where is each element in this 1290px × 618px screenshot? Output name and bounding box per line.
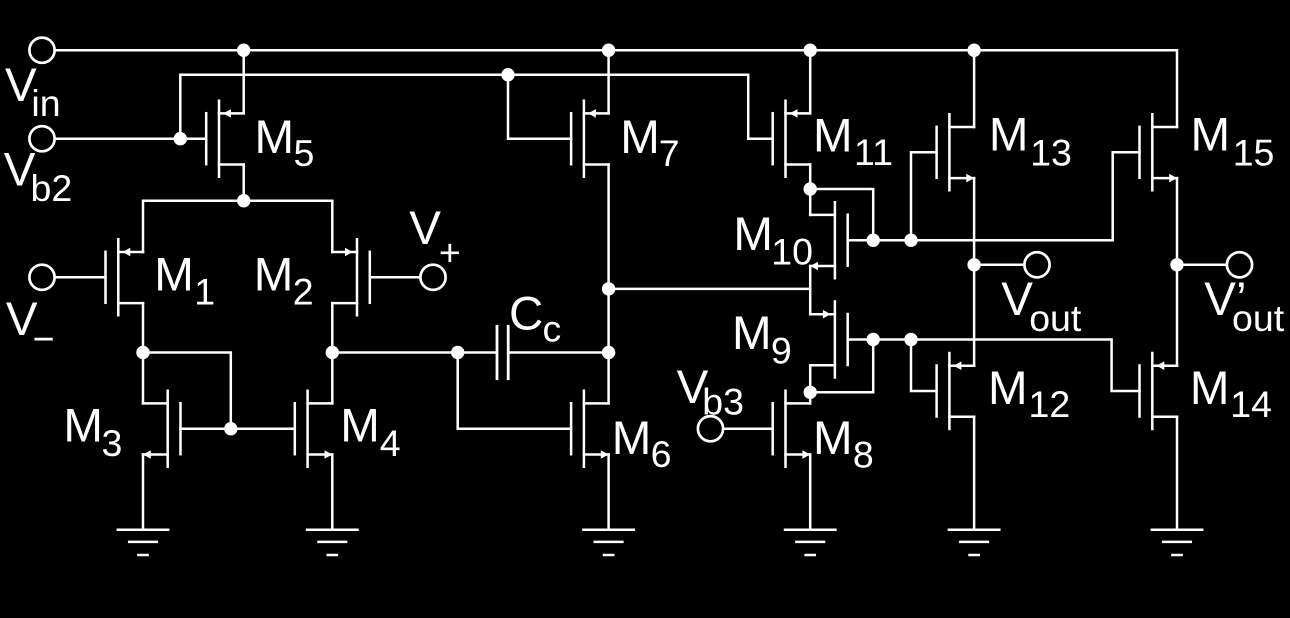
svg-text:M: M: [813, 110, 853, 163]
svg-text:M: M: [813, 412, 853, 465]
svg-text:M: M: [63, 400, 103, 453]
svg-text:out: out: [1232, 297, 1285, 339]
svg-text:M: M: [1190, 362, 1230, 415]
svg-text:in: in: [31, 82, 60, 124]
svg-text:M: M: [154, 249, 194, 302]
svg-text:b2: b2: [31, 167, 73, 209]
svg-text:M: M: [254, 249, 294, 302]
svg-text:11: 11: [854, 131, 893, 173]
svg-text:8: 8: [853, 433, 874, 475]
svg-text:5: 5: [294, 132, 315, 174]
svg-text:M: M: [620, 111, 660, 164]
svg-text:12: 12: [1029, 383, 1071, 425]
svg-text:out: out: [1029, 297, 1082, 339]
svg-text:6: 6: [651, 433, 672, 475]
svg-text:M: M: [340, 400, 380, 453]
svg-text:15: 15: [1233, 132, 1275, 174]
svg-text:c: c: [543, 308, 562, 350]
svg-text:M: M: [1191, 109, 1231, 162]
svg-text:+: +: [439, 232, 461, 274]
svg-text:M: M: [732, 307, 772, 360]
svg-text:14: 14: [1230, 383, 1272, 425]
svg-text:M: M: [989, 108, 1029, 161]
svg-text:3: 3: [102, 422, 123, 464]
svg-text:b3: b3: [702, 381, 744, 423]
svg-text:M: M: [612, 412, 652, 465]
svg-text:13: 13: [1030, 131, 1072, 173]
svg-text:M: M: [733, 208, 773, 261]
svg-text:C: C: [509, 288, 543, 341]
svg-text:−: −: [33, 318, 55, 360]
svg-text:V: V: [409, 202, 441, 255]
svg-text:M: M: [255, 111, 295, 164]
svg-text:9: 9: [771, 330, 792, 372]
svg-text:7: 7: [659, 132, 680, 174]
svg-text:M: M: [988, 362, 1028, 415]
svg-text:10: 10: [771, 231, 813, 273]
svg-text:2: 2: [293, 271, 314, 313]
svg-text:4: 4: [380, 422, 401, 464]
svg-text:1: 1: [194, 271, 215, 313]
